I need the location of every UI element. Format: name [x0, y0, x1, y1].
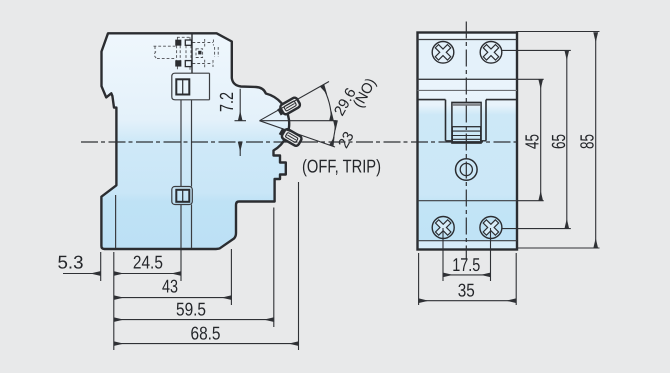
side view flange inner line: [115, 195, 117, 248]
top screw left: [432, 42, 454, 64]
front view gray strip line: [418, 89, 518, 91]
extension lines right of front view: [502, 32, 600, 249]
dim 65: [566, 50, 568, 228]
svg-text:23: 23: [335, 129, 358, 151]
front view top strip line: [418, 39, 518, 41]
side view upper toggle window notch: [172, 34, 210, 100]
dim 68.5: [114, 343, 299, 345]
side view long vertical face lines: [181, 100, 192, 248]
bottom screw right: [480, 217, 502, 239]
vertical face line above window: [191, 34, 193, 73]
toggle handle upper (NO position): [277, 97, 301, 117]
extension lines below front view: [419, 228, 517, 305]
svg-text:35: 35: [458, 279, 475, 300]
svg-text:7.2: 7.2: [217, 92, 238, 112]
side view lower window: [172, 187, 193, 205]
dim 17.5: [443, 274, 491, 276]
dim 85: [595, 33, 597, 249]
recess walls: [446, 100, 487, 141]
phantom accessory detail (dashed) on top of side view: [154, 37, 219, 70]
bottom screw left: [432, 217, 454, 239]
vertical center line front view: [465, 22, 467, 260]
front view body: [418, 33, 518, 250]
top screw right: [480, 42, 502, 64]
lower window divider: [182, 190, 184, 202]
svg-text:85: 85: [578, 134, 599, 149]
front view line under top screws: [418, 78, 518, 80]
lower window inner square: [176, 190, 189, 202]
dim 7.2 vertical line + arrows: [235, 89, 247, 156]
upper window divider: [182, 79, 184, 94]
test button: [456, 159, 478, 181]
dim 45: [540, 79, 542, 200]
angle arc 29.6: [322, 86, 331, 121]
toggle handle front: [452, 102, 481, 143]
phantom solid squares: [176, 40, 202, 67]
svg-text:59.5: 59.5: [176, 298, 206, 319]
dim 35: [419, 300, 517, 302]
svg-text:45: 45: [523, 134, 544, 149]
dim 24.5: [114, 273, 181, 275]
front view recess top lines: [418, 99, 518, 101]
svg-text:17.5: 17.5: [452, 254, 480, 275]
svg-text:68.5: 68.5: [191, 322, 221, 343]
front view line below bottom screws: [418, 240, 518, 242]
dim 5.3: [63, 273, 100, 275]
svg-text:43: 43: [162, 276, 178, 297]
svg-text:(OFF, TRIP): (OFF, TRIP): [302, 156, 381, 177]
svg-text:24.5: 24.5: [133, 252, 163, 273]
handle throw radiating lines: [260, 82, 337, 148]
extension lines below side view: [101, 182, 299, 350]
side view upper window inner square: [176, 79, 189, 94]
dim 43: [114, 297, 232, 299]
angle arc 23: [331, 121, 335, 146]
front view line above bottom screws: [418, 200, 518, 202]
dim 59.5: [114, 319, 274, 321]
svg-text:5.3: 5.3: [58, 252, 84, 273]
svg-text:65: 65: [549, 134, 570, 149]
toggle handle lower (OFF position): [278, 127, 302, 147]
horizontal center line: [81, 141, 519, 143]
side view body outline: [101, 33, 289, 249]
recess bottom: [446, 140, 487, 142]
